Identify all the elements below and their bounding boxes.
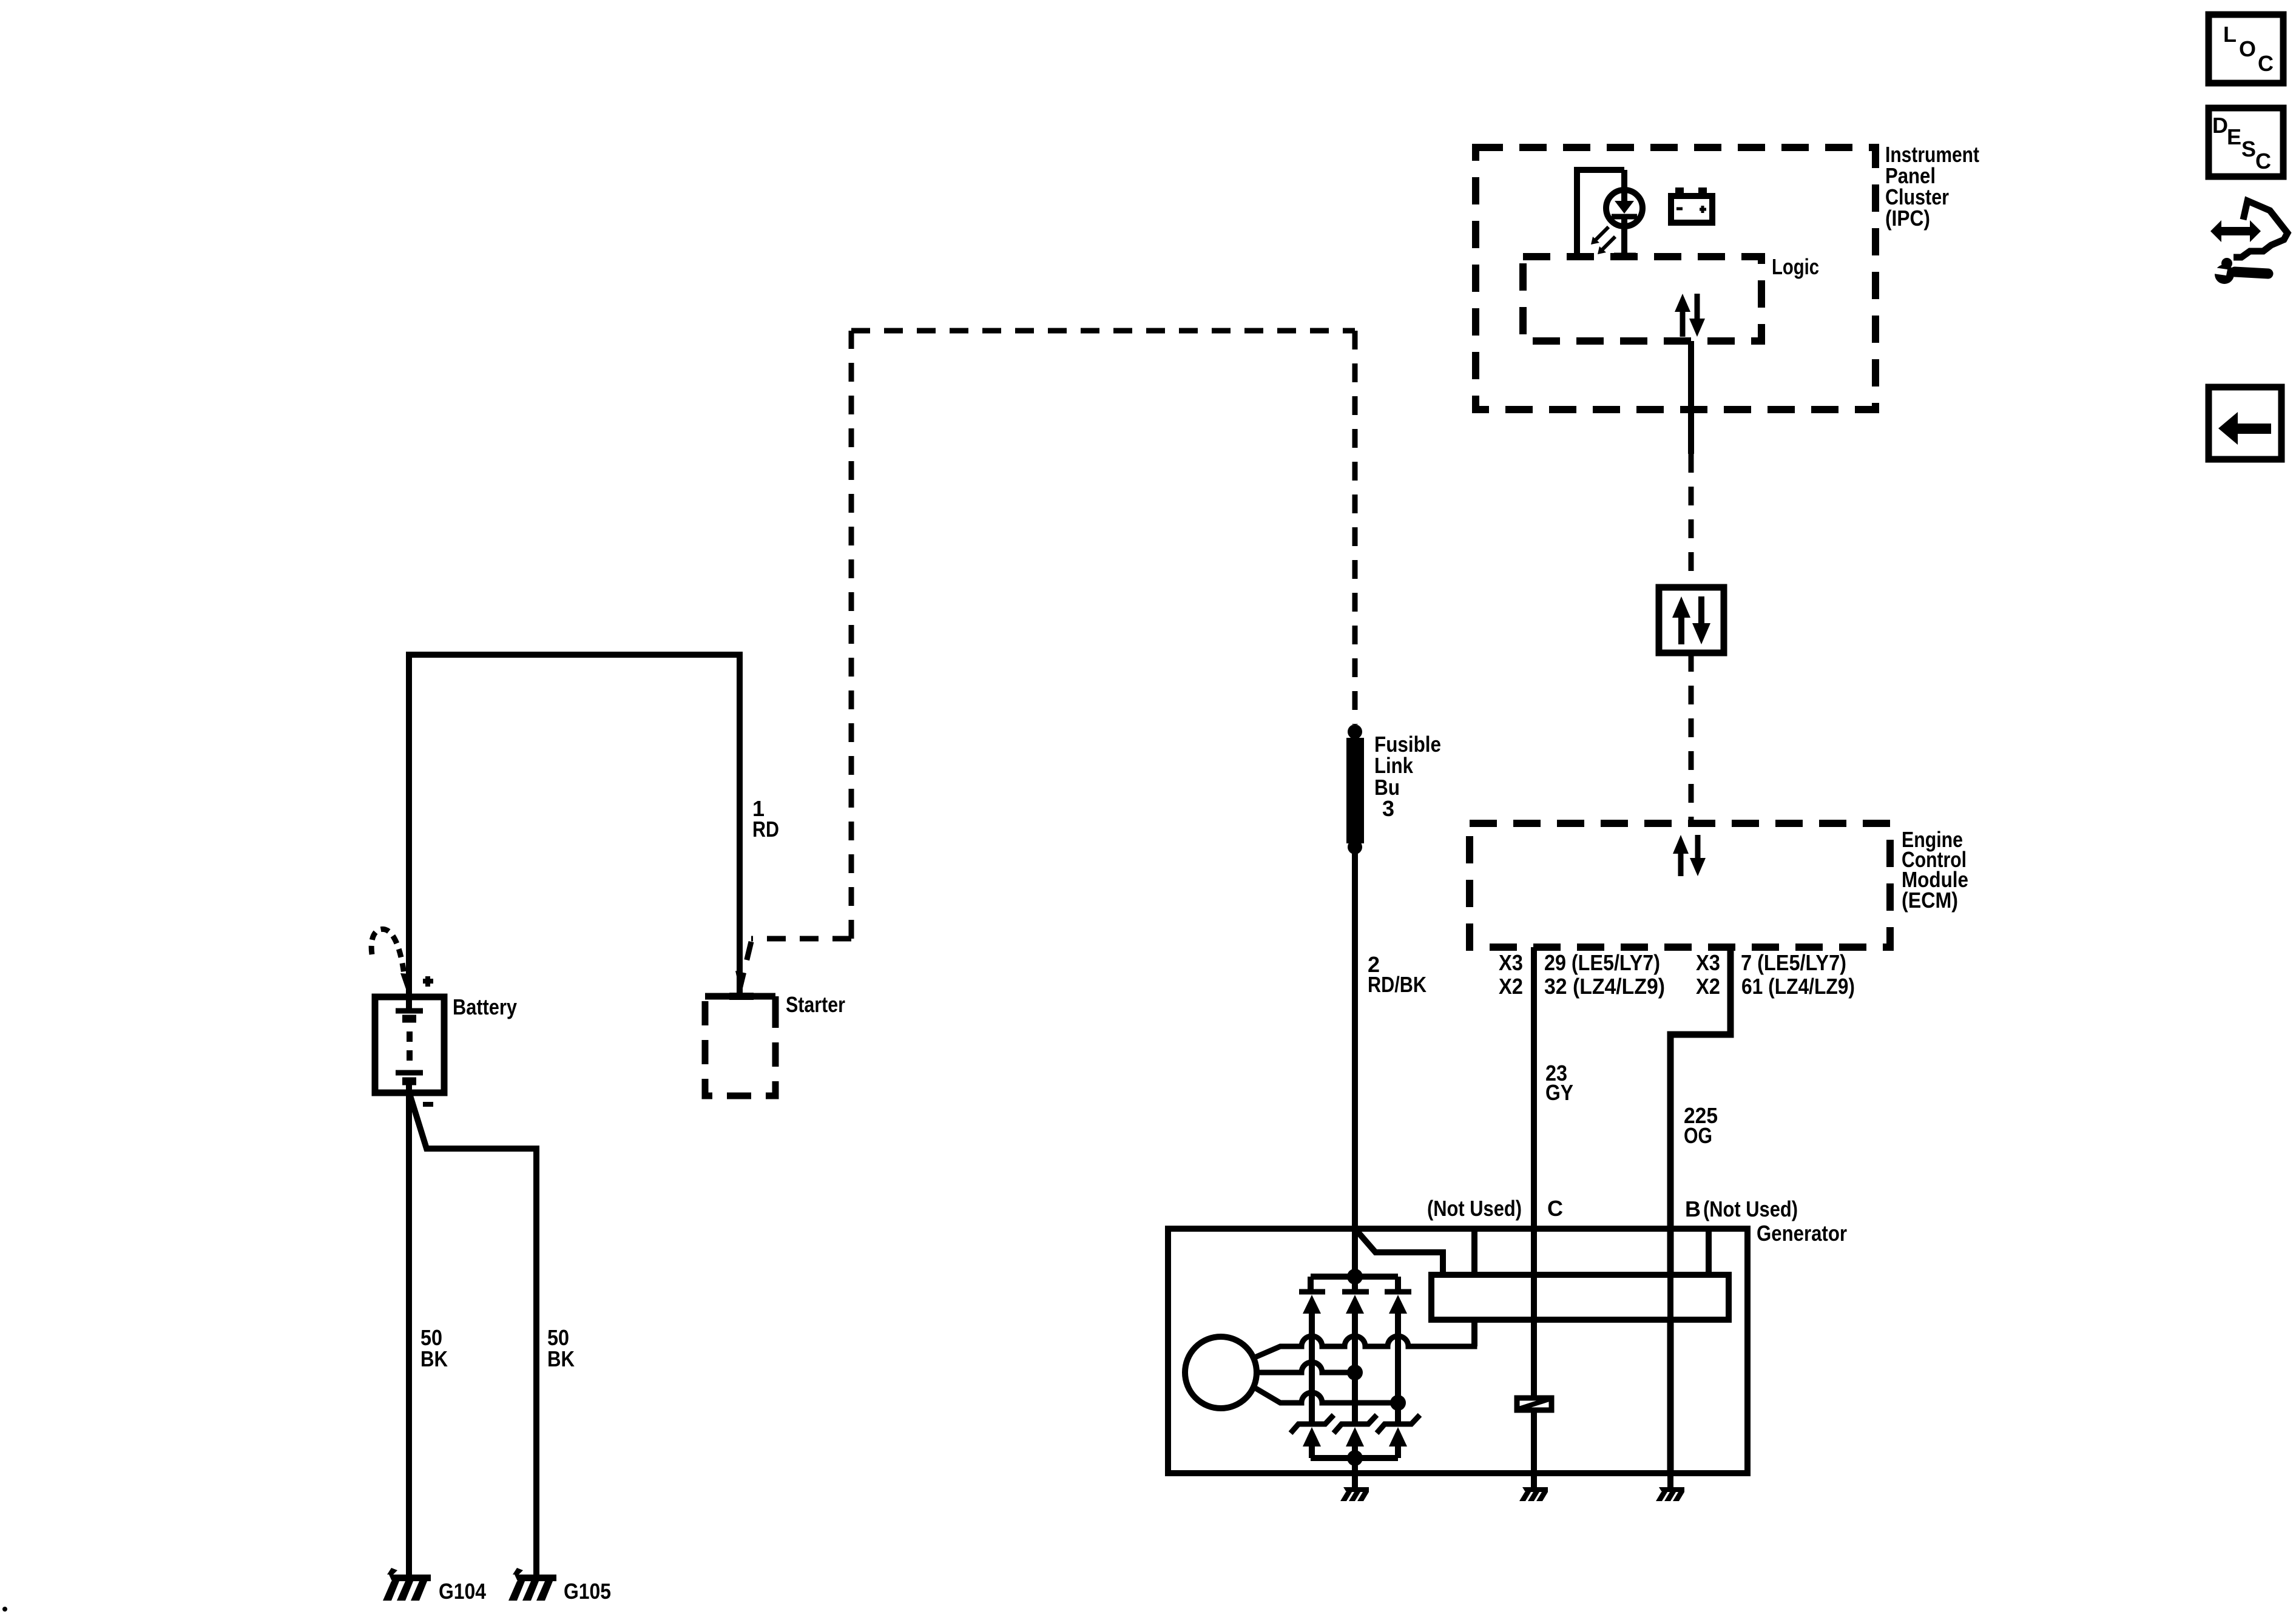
svg-text:BK: BK <box>547 1346 575 1371</box>
svg-text:(Not Used): (Not Used) <box>1427 1196 1522 1221</box>
svg-text:E: E <box>2227 124 2241 149</box>
svg-text:C: C <box>2258 51 2274 76</box>
svg-text:S: S <box>2241 137 2256 161</box>
svg-text:X2: X2 <box>1499 974 1523 999</box>
svg-text:29 (LE5/LY7): 29 (LE5/LY7) <box>1544 950 1660 975</box>
svg-text:B: B <box>1685 1197 1701 1221</box>
svg-text:X3: X3 <box>1696 950 1720 975</box>
svg-text:G104: G104 <box>439 1579 486 1604</box>
svg-text:G105: G105 <box>564 1579 611 1604</box>
svg-text:OG: OG <box>1684 1123 1712 1148</box>
svg-text:Logic: Logic <box>1772 254 1819 279</box>
svg-text:X3: X3 <box>1499 950 1523 975</box>
svg-text:C: C <box>1547 1196 1563 1221</box>
svg-text:32 (LZ4/LZ9): 32 (LZ4/LZ9) <box>1544 974 1665 999</box>
svg-text:7 (LE5/LY7): 7 (LE5/LY7) <box>1741 950 1846 975</box>
svg-text:Link: Link <box>1374 753 1414 778</box>
svg-text:(IPC): (IPC) <box>1885 206 1930 231</box>
svg-text:RD: RD <box>752 817 779 842</box>
svg-text:Starter: Starter <box>786 992 845 1017</box>
svg-text:D: D <box>2212 113 2228 138</box>
svg-text:RD/BK: RD/BK <box>1368 972 1427 997</box>
svg-text:BK: BK <box>420 1346 448 1371</box>
svg-text:3: 3 <box>1382 796 1394 821</box>
svg-text:L: L <box>2223 22 2237 47</box>
svg-text:(ECM): (ECM) <box>1902 888 1958 913</box>
svg-text:Battery: Battery <box>453 994 517 1019</box>
svg-text:O: O <box>2239 36 2256 61</box>
svg-text:61 (LZ4/LZ9): 61 (LZ4/LZ9) <box>1741 974 1855 999</box>
svg-text:Generator: Generator <box>1757 1221 1847 1246</box>
svg-text:GY: GY <box>1545 1080 1573 1105</box>
svg-text:X2: X2 <box>1696 974 1720 999</box>
svg-text:C: C <box>2255 149 2271 174</box>
svg-text:(Not Used): (Not Used) <box>1703 1197 1798 1221</box>
